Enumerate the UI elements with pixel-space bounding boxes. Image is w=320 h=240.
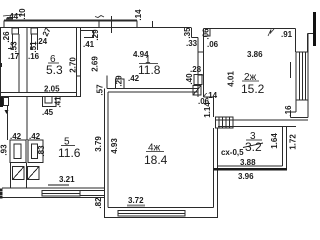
svg-text:3.72: 3.72 [128,196,144,205]
svg-text:1.64: 1.64 [270,133,279,149]
entrance door leaf box [4,98,9,106]
svg-text:.45: .45 [42,108,54,117]
left party wall [0,28,2,98]
top outer wall [4,20,137,22]
door box .45 [43,97,57,107]
svg-text:4.01: 4.01 [227,71,236,87]
room4 left wall [104,89,106,198]
shaft column 2 [31,28,38,34]
svg-text:3.96: 3.96 [238,172,254,181]
left outer wall lower [7,106,9,141]
svg-text:.83: .83 [37,145,46,157]
wc/room6 wall [18,34,20,93]
svg-text:.91: .91 [281,30,293,39]
svg-text:1.72: 1.72 [289,134,298,150]
svg-text:.17: .17 [8,52,20,61]
room4 top-right step [204,96,214,98]
svg-text:11.6: 11.6 [58,146,81,160]
room2 window right [296,52,308,100]
loggia right wall [282,127,284,167]
svg-text:.24: .24 [36,37,48,46]
svg-text:.06: .06 [202,28,211,40]
svg-text:.14: .14 [134,9,143,21]
svg-text:3.86: 3.86 [247,50,263,59]
room2 right outer corner [295,29,297,53]
svg-text:1.14: 1.14 [203,102,212,118]
room4 right wall [213,128,215,208]
svg-text:2.05: 2.05 [44,85,60,94]
svg-text:5.3: 5.3 [46,63,63,77]
svg-text:11.8: 11.8 [138,63,161,77]
corner tick .14 [204,93,207,97]
svg-text:3.79: 3.79 [94,136,103,152]
door arrow [5,110,9,114]
svg-text:.53: .53 [10,41,19,53]
window inner dash [290,62,292,78]
svg-text:.42: .42 [128,74,140,83]
balcony door hatch [216,117,234,128]
grey sill marks [48,184,69,186]
top-left grey block [6,17,14,20]
wall below window [295,100,297,112]
svg-text:.33: .33 [186,39,198,48]
room6/room5 wall band [0,92,77,94]
bottom-left wall hatch ticks [0,189,3,192]
black bar left entrance [0,97,3,107]
svg-text:.10: .10 [18,8,27,20]
svg-text:.28: .28 [190,65,202,74]
shaft column 1 [12,28,19,34]
svg-text:сх-0,5: сх-0,5 [221,148,244,157]
room4 bottom wall [108,207,214,209]
svg-text:.29: .29 [91,29,100,41]
svg-text:.16: .16 [284,105,293,117]
svg-text:.42: .42 [10,132,22,141]
svg-text:.40: .40 [185,73,194,85]
svg-text:.35: .35 [183,27,192,39]
niche boxes at corridor end [194,75,202,85]
break mark room2 wall [268,29,274,36]
strike through .44 [3,14,22,16]
svg-text:.57: .57 [96,84,105,96]
room5 window [42,191,80,197]
break mark top wall [95,16,104,18]
loggia bottom [218,165,283,167]
corridor niche box [81,31,94,38]
svg-text:15.2: 15.2 [241,82,265,96]
svg-text:3.2: 3.2 [245,140,262,154]
corridor bottom / room4 top wall [107,88,198,90]
room5 bottom wall [2,187,105,189]
svg-text:3.88: 3.88 [240,158,256,167]
room4 window [118,211,185,217]
wall tick left [0,63,2,67]
svg-text:.16: .16 [28,52,40,61]
svg-text:.44: .44 [7,12,19,21]
svg-text:2.69: 2.69 [91,56,100,72]
svg-text:3.21: 3.21 [59,175,75,184]
svg-text:4.93: 4.93 [110,138,119,154]
shaft walls down [10,163,12,189]
svg-text:.93: .93 [0,144,9,156]
svg-text:18.4: 18.4 [144,153,168,167]
corridor / room2 wall [191,28,193,38]
hatched vent squares [13,167,25,180]
svg-text:.06: .06 [207,40,219,49]
room6 right wall [76,28,78,98]
svg-text:2.70: 2.70 [69,57,78,73]
shaft boxes left [10,140,26,163]
svg-text:.41: .41 [54,96,63,108]
svg-text:.29: .29 [115,75,124,87]
svg-text:.26: .26 [2,31,11,43]
room2 top wall [204,28,296,30]
room2 bottom wall [215,119,308,121]
room2 top-left niche [204,29,211,37]
neighbor wall black bar [313,12,316,46]
svg-text:.82: .82 [94,197,103,209]
svg-text:.42: .42 [29,132,41,141]
strike through 3.2 [243,143,263,148]
corridor step box [106,76,108,89]
room5 left wall [26,97,28,141]
